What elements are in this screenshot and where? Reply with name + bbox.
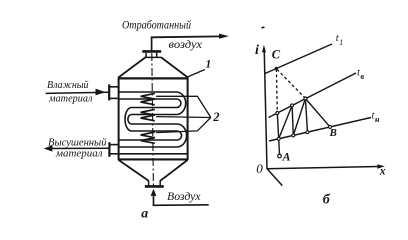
line tB (middle isotherm) bbox=[269, 73, 357, 118]
i axis (vertical) bbox=[264, 49, 267, 169]
wet material arrow shaft bbox=[46, 92, 109, 93]
svg-text:i: i bbox=[255, 43, 259, 58]
svg-text:A: A bbox=[282, 150, 291, 164]
dashed diagonal C to third vertex bbox=[277, 69, 306, 98]
line tH (lower isotherm) bbox=[269, 118, 371, 142]
node on tB line (second) bbox=[291, 104, 294, 107]
x axis (horizontal) bbox=[267, 167, 378, 169]
svg-text:C: C bbox=[272, 47, 281, 61]
oblique x axis stub bbox=[267, 169, 282, 186]
coil right U-bend 1 outer bbox=[177, 92, 186, 115]
process line from third vertex to B bbox=[305, 99, 330, 127]
top cone left slope bbox=[118, 57, 145, 77]
svg-text:1: 1 bbox=[206, 59, 212, 71]
top cone right slope bbox=[161, 57, 188, 77]
wet material inlet nozzle flange bbox=[108, 84, 110, 100]
svg-text:в: в bbox=[361, 72, 365, 81]
top neck left wall bbox=[145, 53, 147, 58]
coil right U-bend 2 outer bbox=[177, 124, 187, 147]
point A bbox=[278, 154, 282, 158]
leader line to label 1 bbox=[186, 70, 205, 78]
air inlet arrowhead (pointing up) bbox=[151, 189, 157, 196]
svg-text:2: 2 bbox=[212, 110, 220, 124]
coil right U-bend 1 inner bbox=[177, 99, 181, 108]
air inlet horizontal line bbox=[153, 204, 209, 207]
point C bbox=[275, 67, 278, 70]
bottom cone left slope bbox=[119, 160, 149, 181]
bottom flange bar bbox=[145, 185, 164, 188]
heater element zigzag 3 bbox=[141, 132, 155, 143]
node on tB line (start) bbox=[276, 112, 279, 115]
heater element zigzag 1 bbox=[141, 93, 155, 104]
node on tH line (third) bbox=[306, 131, 309, 134]
top flange bar bbox=[142, 50, 161, 53]
x axis arrowhead bbox=[377, 164, 384, 168]
body right wall bbox=[187, 78, 189, 161]
zigzag vertical 1 (down to A) bbox=[277, 113, 279, 154]
svg-text:0: 0 bbox=[256, 161, 263, 176]
leader line to label 2 (top) bbox=[156, 96, 211, 117]
leader line to label 2 (middle) bbox=[156, 116, 211, 119]
body left wall bbox=[118, 78, 120, 161]
exhaust air arrow (horizontal shaft) bbox=[151, 35, 220, 38]
coil tube 3 top line bbox=[131, 123, 177, 125]
bottom neck left wall bbox=[148, 180, 150, 185]
dried material outlet nozzle flange bbox=[108, 142, 110, 157]
svg-text:Высушенный: Высушенный bbox=[48, 137, 107, 149]
svg-text:x: x bbox=[379, 166, 386, 178]
exhaust air arrowhead bbox=[219, 34, 229, 39]
svg-text:а: а bbox=[141, 205, 148, 220]
svg-text:Воздух: Воздух bbox=[167, 191, 201, 203]
leader line to label 2 (bottom) bbox=[156, 118, 211, 133]
coil tube 3 bottom line bbox=[131, 130, 177, 132]
node on tH line (first) bbox=[277, 137, 280, 140]
coil tube 2 top line bbox=[131, 107, 177, 109]
heater element zigzag 2 bbox=[141, 109, 155, 120]
svg-text:б: б bbox=[323, 192, 331, 207]
line t1 bbox=[265, 44, 332, 74]
svg-text:воздух: воздух bbox=[169, 39, 203, 51]
body top edge bbox=[118, 77, 188, 79]
coil tube 2 bottom line bbox=[131, 114, 177, 116]
coil tube 4 top line bbox=[119, 139, 177, 141]
svg-text:1: 1 bbox=[339, 38, 343, 47]
svg-text:материал: материал bbox=[55, 148, 103, 160]
zigzag slant 2 bbox=[293, 99, 305, 136]
svg-text:н: н bbox=[375, 115, 380, 124]
top neck right wall bbox=[156, 53, 158, 58]
wet material arrowhead bbox=[96, 89, 106, 96]
top cone flat edge bbox=[145, 56, 162, 58]
body bottom edge bbox=[118, 158, 188, 160]
node on tH line (second) bbox=[292, 134, 295, 137]
i axis arrowhead bbox=[262, 45, 266, 53]
coil tube 4 bottom line bbox=[119, 146, 177, 148]
dried material arrow shaft bbox=[51, 147, 109, 149]
coil tube 1 bottom line bbox=[119, 98, 177, 100]
svg-text:материал: материал bbox=[48, 93, 93, 105]
coil right U-bend 2 inner bbox=[177, 131, 182, 140]
wet material inlet nozzle pipe top bbox=[109, 86, 118, 88]
coil tube 1 top line bbox=[119, 91, 177, 93]
wet material inlet nozzle pipe bottom bbox=[109, 97, 118, 99]
bottom cone right slope bbox=[160, 160, 187, 181]
svg-text:Влажный: Влажный bbox=[47, 79, 89, 91]
svg-text:B: B bbox=[329, 127, 337, 139]
body bottom tray line bbox=[118, 153, 188, 155]
dried material outlet nozzle pipe bottom bbox=[109, 153, 118, 155]
coil left U-bend outer bbox=[125, 108, 131, 132]
coil left U-bend inner bbox=[128, 115, 131, 125]
zigzag vertical 2 bbox=[292, 105, 293, 135]
exhaust air arrow (vertical riser from top flange) bbox=[151, 37, 153, 51]
node on tB line (third) bbox=[304, 97, 307, 100]
zigzag slant 1 bbox=[279, 105, 292, 138]
dried material outlet nozzle pipe top bbox=[109, 144, 118, 146]
bottom neck right wall bbox=[159, 180, 161, 185]
svg-text:Отработанный: Отработанный bbox=[122, 19, 191, 31]
point B bbox=[329, 125, 332, 128]
air inlet arrow vertical shaft bbox=[153, 195, 155, 205]
dashed vertical C to process start bbox=[275, 69, 278, 113]
zigzag vertical 3 bbox=[305, 99, 307, 133]
dried material arrowhead bbox=[44, 145, 53, 151]
scan artifact mark top of axis bbox=[261, 26, 265, 28]
vertical centerline (dash-dot axis) bbox=[152, 53, 154, 187]
